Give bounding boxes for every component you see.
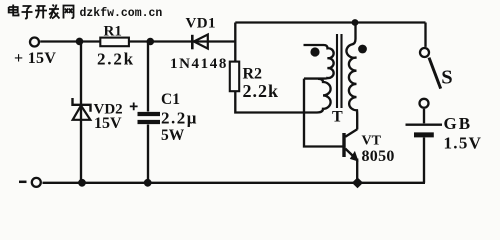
svg-text:5W: 5W (161, 127, 185, 144)
svg-text:dzkfw.com.cn: dzkfw.com.cn (80, 7, 163, 20)
svg-text:2.2k: 2.2k (243, 81, 280, 101)
svg-text:VD1: VD1 (186, 16, 216, 32)
svg-text:S: S (441, 67, 452, 89)
svg-text:VT: VT (362, 134, 382, 149)
svg-text:1.5V: 1.5V (444, 134, 483, 153)
svg-text:2.2k: 2.2k (97, 50, 135, 69)
svg-text:15V: 15V (94, 115, 122, 132)
svg-text:C1: C1 (161, 91, 180, 108)
svg-text:GB: GB (444, 114, 473, 133)
svg-text:R2: R2 (243, 66, 263, 83)
svg-text:1N4148: 1N4148 (170, 56, 228, 72)
svg-text:T: T (332, 109, 343, 126)
svg-text:+ 15V: + 15V (14, 50, 56, 67)
svg-text:2.2μ: 2.2μ (161, 109, 198, 128)
svg-text:R1: R1 (104, 24, 122, 40)
svg-text:8050: 8050 (362, 148, 395, 165)
